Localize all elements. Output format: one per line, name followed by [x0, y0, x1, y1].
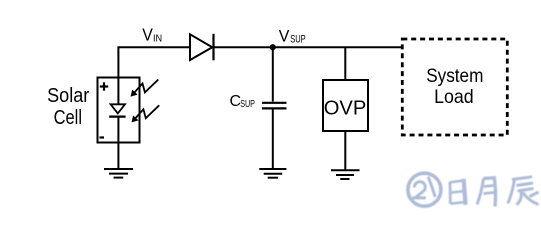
svg-text:System: System — [426, 65, 483, 87]
svg-text:Load: Load — [434, 86, 474, 108]
label VIN — [142, 24, 162, 44]
watermark character chen — [508, 177, 539, 205]
wire: Vin corner from solar cell to diode — [118, 47, 190, 104]
label CSUP — [230, 93, 256, 110]
capacitor C1 plates — [262, 103, 287, 109]
solar cell value label — [47, 85, 89, 129]
wire: OVP to ground — [344, 131, 346, 170]
node Vsup junction dot — [270, 44, 276, 50]
watermark character yue — [477, 178, 496, 207]
ground (solar cell) — [104, 169, 133, 178]
plus polarity mark — [100, 82, 108, 90]
watermark character ri — [449, 179, 465, 206]
solar cell PV1 box — [98, 78, 140, 143]
svg-text:SUP: SUP — [240, 99, 255, 110]
minus polarity mark — [100, 136, 105, 138]
ground (Csup) — [259, 169, 286, 178]
wire: solar cell cathode to ground — [117, 117, 119, 169]
wire: Csup to ground — [272, 108, 274, 169]
svg-text:IN: IN — [153, 33, 162, 45]
svg-text:SUP: SUP — [290, 33, 306, 45]
svg-text:Solar: Solar — [47, 85, 89, 107]
light arrow 2 — [132, 105, 160, 122]
diode D2 — [190, 34, 214, 61]
svg-text:OVP: OVP — [324, 96, 367, 119]
svg-text:V: V — [142, 24, 153, 44]
label VSUP — [279, 27, 306, 46]
svg-text:Cell: Cell — [54, 107, 82, 129]
wire: Vsup node down to Csup — [272, 47, 274, 101]
OVP box U1 — [323, 80, 368, 131]
photodiode D1 — [109, 104, 125, 116]
svg-text:V: V — [279, 27, 290, 46]
light arrow 1 — [131, 80, 159, 97]
wire: Vsup rail from diode to system load — [215, 46, 403, 48]
System Load box — [402, 39, 507, 135]
wire: rail branch down to OVP — [344, 47, 346, 80]
label System Load — [426, 65, 483, 108]
watermark logo ring — [408, 173, 441, 206]
ground (OVP) — [331, 170, 360, 179]
